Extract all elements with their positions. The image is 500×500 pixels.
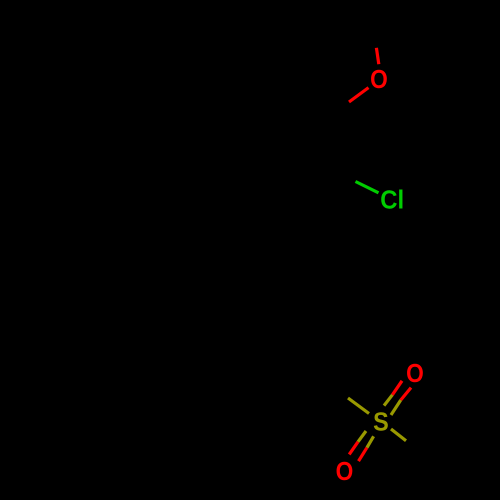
bond CH2-S half (olive)	[348, 398, 369, 414]
double bond S=O2 line 1 (red half near O2)	[392, 381, 402, 395]
bond C2-Cl half (green)	[356, 182, 379, 193]
bond CH3-O1 half (red, methyl to methoxy oxygen)	[376, 48, 378, 64]
svg-text:S: S	[373, 408, 389, 436]
double bond S=O3 line 1 (olive half near S)	[358, 431, 366, 442]
double bond S=O3 line 1 (red half near O3)	[349, 442, 358, 455]
double bond S=O2 line 2 (red half near O2)	[401, 388, 411, 400]
bond S-CH3 half (olive, sulfur to methyl)	[391, 429, 406, 441]
svg-text:O: O	[370, 66, 388, 95]
svg-text:O: O	[336, 458, 354, 487]
double bond S=O2 line 1 (olive half near S)	[384, 395, 392, 406]
svg-text:Cl: Cl	[380, 186, 404, 215]
bond O1-C1 half (red, oxygen to ring carbon)	[349, 88, 369, 102]
double bond S=O3 line 2 (red half near O3)	[359, 448, 367, 461]
double bond S=O3 line 2 (olive half near S)	[367, 436, 374, 447]
svg-text:O: O	[406, 360, 424, 389]
double bond S=O2 line 2 (olive half near S)	[391, 400, 401, 415]
